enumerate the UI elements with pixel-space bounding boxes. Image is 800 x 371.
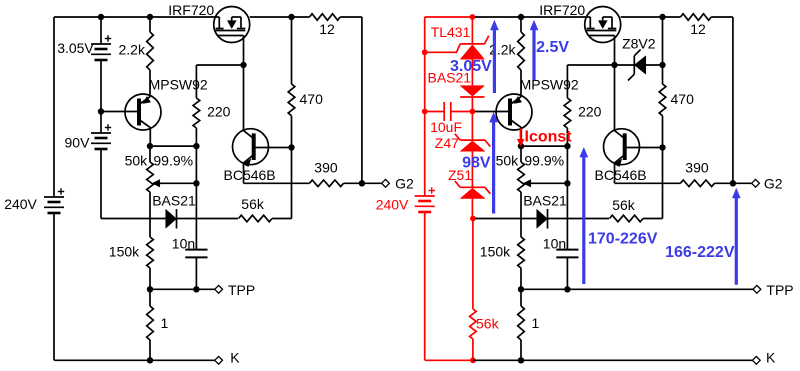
svg-text:170-226V: 170-226V — [588, 231, 658, 248]
svg-text:390: 390 — [685, 160, 709, 176]
svg-text:220: 220 — [578, 104, 602, 120]
svg-text:98V: 98V — [462, 154, 491, 171]
svg-text:G2: G2 — [395, 176, 414, 192]
svg-text:K: K — [766, 350, 776, 366]
svg-text:1: 1 — [161, 315, 169, 331]
svg-text:MPSW92: MPSW92 — [149, 77, 208, 93]
svg-text:56k: 56k — [241, 196, 265, 212]
svg-text:150k: 150k — [480, 244, 511, 260]
svg-text:MPSW92: MPSW92 — [520, 77, 579, 93]
svg-text:K: K — [230, 350, 240, 366]
svg-text:90V: 90V — [65, 135, 91, 151]
svg-text:50k: 50k — [496, 153, 520, 169]
svg-text:G2: G2 — [764, 176, 783, 192]
svg-text:10n: 10n — [172, 235, 195, 251]
svg-text:470: 470 — [671, 91, 695, 107]
svg-text:12: 12 — [319, 21, 335, 37]
svg-text:1: 1 — [532, 315, 540, 331]
svg-text:56k: 56k — [476, 315, 500, 331]
svg-text:390: 390 — [314, 160, 338, 176]
svg-text:99.9%: 99.9% — [153, 153, 193, 169]
svg-text:3.05V: 3.05V — [450, 58, 492, 75]
svg-text:99.9%: 99.9% — [524, 153, 564, 169]
svg-text:10n: 10n — [543, 235, 566, 251]
svg-text:10uF: 10uF — [430, 119, 462, 135]
svg-text:BAS21: BAS21 — [523, 193, 567, 209]
svg-text:TPP: TPP — [228, 282, 255, 298]
svg-text:2.5V: 2.5V — [536, 39, 569, 56]
svg-text:220: 220 — [207, 104, 231, 120]
svg-text:12: 12 — [690, 21, 706, 37]
svg-text:240V: 240V — [4, 196, 37, 212]
svg-text:166-222V: 166-222V — [665, 244, 735, 261]
svg-text:Z47: Z47 — [435, 135, 459, 151]
svg-text:2.2k: 2.2k — [119, 42, 146, 58]
svg-text:BC546B: BC546B — [595, 167, 647, 183]
svg-text:TPP: TPP — [766, 282, 793, 298]
svg-text:BC546B: BC546B — [224, 167, 276, 183]
svg-text:150k: 150k — [109, 244, 140, 260]
svg-text:Z8V2: Z8V2 — [622, 36, 656, 52]
svg-text:50k: 50k — [125, 153, 149, 169]
svg-text:56k: 56k — [612, 197, 636, 213]
svg-text:IRF720: IRF720 — [539, 2, 585, 18]
svg-text:240V: 240V — [376, 197, 409, 213]
svg-text:BAS21: BAS21 — [152, 193, 196, 209]
svg-text:TL431: TL431 — [431, 24, 471, 40]
svg-text:470: 470 — [300, 91, 324, 107]
svg-text:3.05V: 3.05V — [57, 40, 94, 56]
svg-text:IRF720: IRF720 — [168, 2, 214, 18]
svg-text:Iconst: Iconst — [525, 128, 573, 145]
